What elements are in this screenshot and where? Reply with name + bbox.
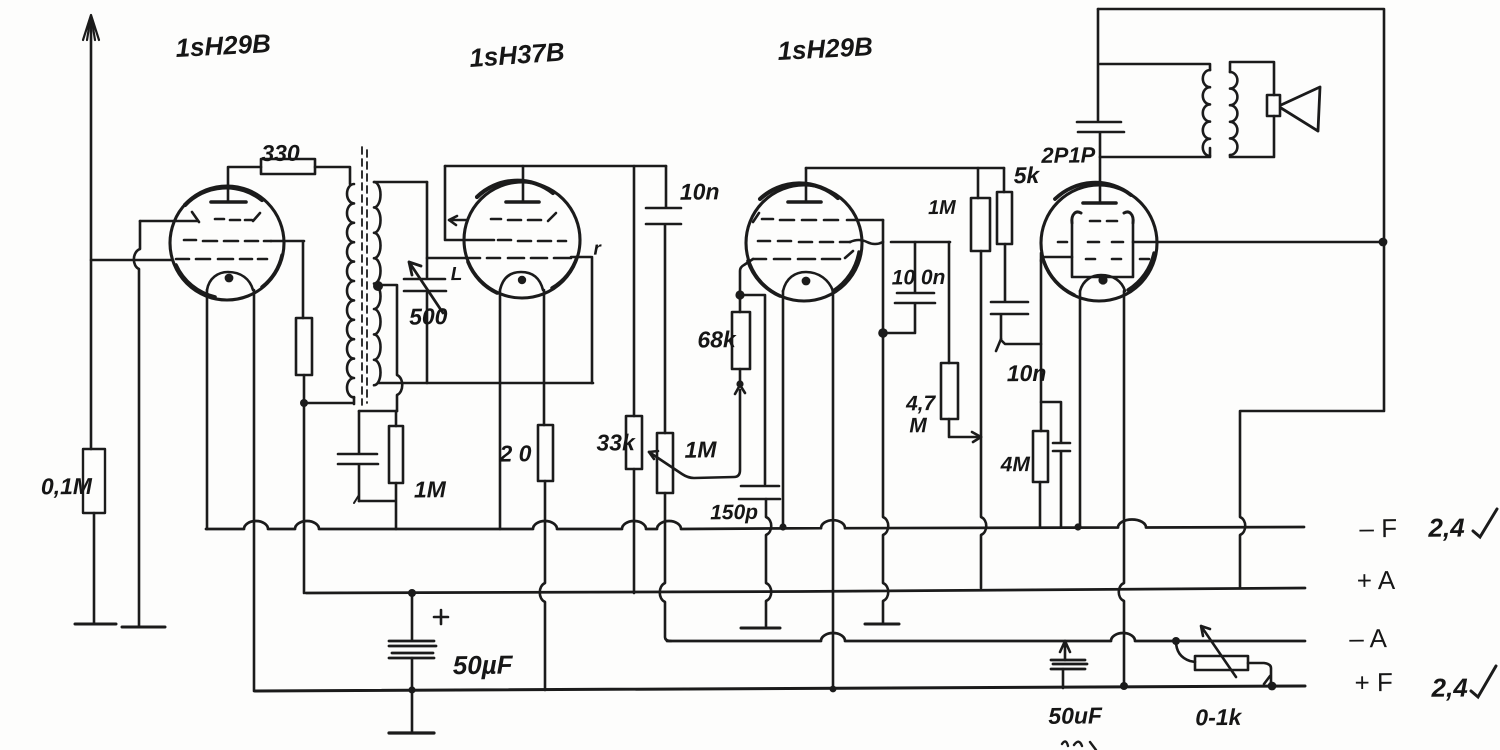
svg-text:M: M (909, 414, 927, 437)
svg-text:– A: – A (1349, 623, 1387, 653)
svg-text:10n: 10n (680, 178, 720, 204)
svg-text:10n: 10n (1007, 360, 1047, 386)
svg-text:+ F: + F (1354, 667, 1393, 697)
svg-text:2,4: 2,4 (1427, 513, 1465, 543)
svg-text:+ A: + A (1357, 565, 1396, 595)
svg-text:0-1k: 0-1k (1195, 704, 1243, 730)
svg-text:10 0n: 10 0n (892, 266, 946, 290)
svg-text:50µF: 50µF (453, 649, 514, 680)
svg-text:1M: 1M (414, 476, 447, 502)
svg-text:0,1M: 0,1M (41, 473, 93, 500)
svg-text:– F: – F (1359, 513, 1397, 543)
svg-text:2 0: 2 0 (498, 440, 531, 466)
svg-text:2P1P: 2P1P (1040, 142, 1095, 168)
svg-text:2,4: 2,4 (1431, 673, 1469, 703)
svg-text:1sH29B: 1sH29B (777, 31, 874, 66)
svg-text:50uF: 50uF (1048, 702, 1103, 729)
svg-text:1M: 1M (928, 197, 957, 219)
svg-text:500: 500 (409, 303, 448, 329)
svg-text:1sH29B: 1sH29B (175, 28, 272, 63)
svg-text:330: 330 (261, 140, 300, 166)
svg-text:33k: 33k (596, 429, 636, 455)
svg-text:4,7: 4,7 (905, 392, 937, 415)
svg-text:5k: 5k (1014, 162, 1041, 188)
svg-text:4M: 4M (1000, 453, 1031, 476)
svg-text:150p: 150p (710, 501, 758, 525)
svg-text:68k: 68k (697, 326, 737, 352)
svg-text:L: L (451, 264, 463, 285)
svg-text:1M: 1M (684, 436, 717, 462)
